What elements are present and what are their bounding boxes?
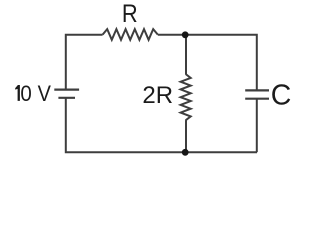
svg-text:V: V	[38, 81, 52, 106]
svg-text:2R: 2R	[142, 82, 173, 109]
svg-text:0: 0	[20, 81, 31, 106]
svg-text:C: C	[271, 79, 292, 111]
svg-text:R: R	[122, 0, 138, 28]
